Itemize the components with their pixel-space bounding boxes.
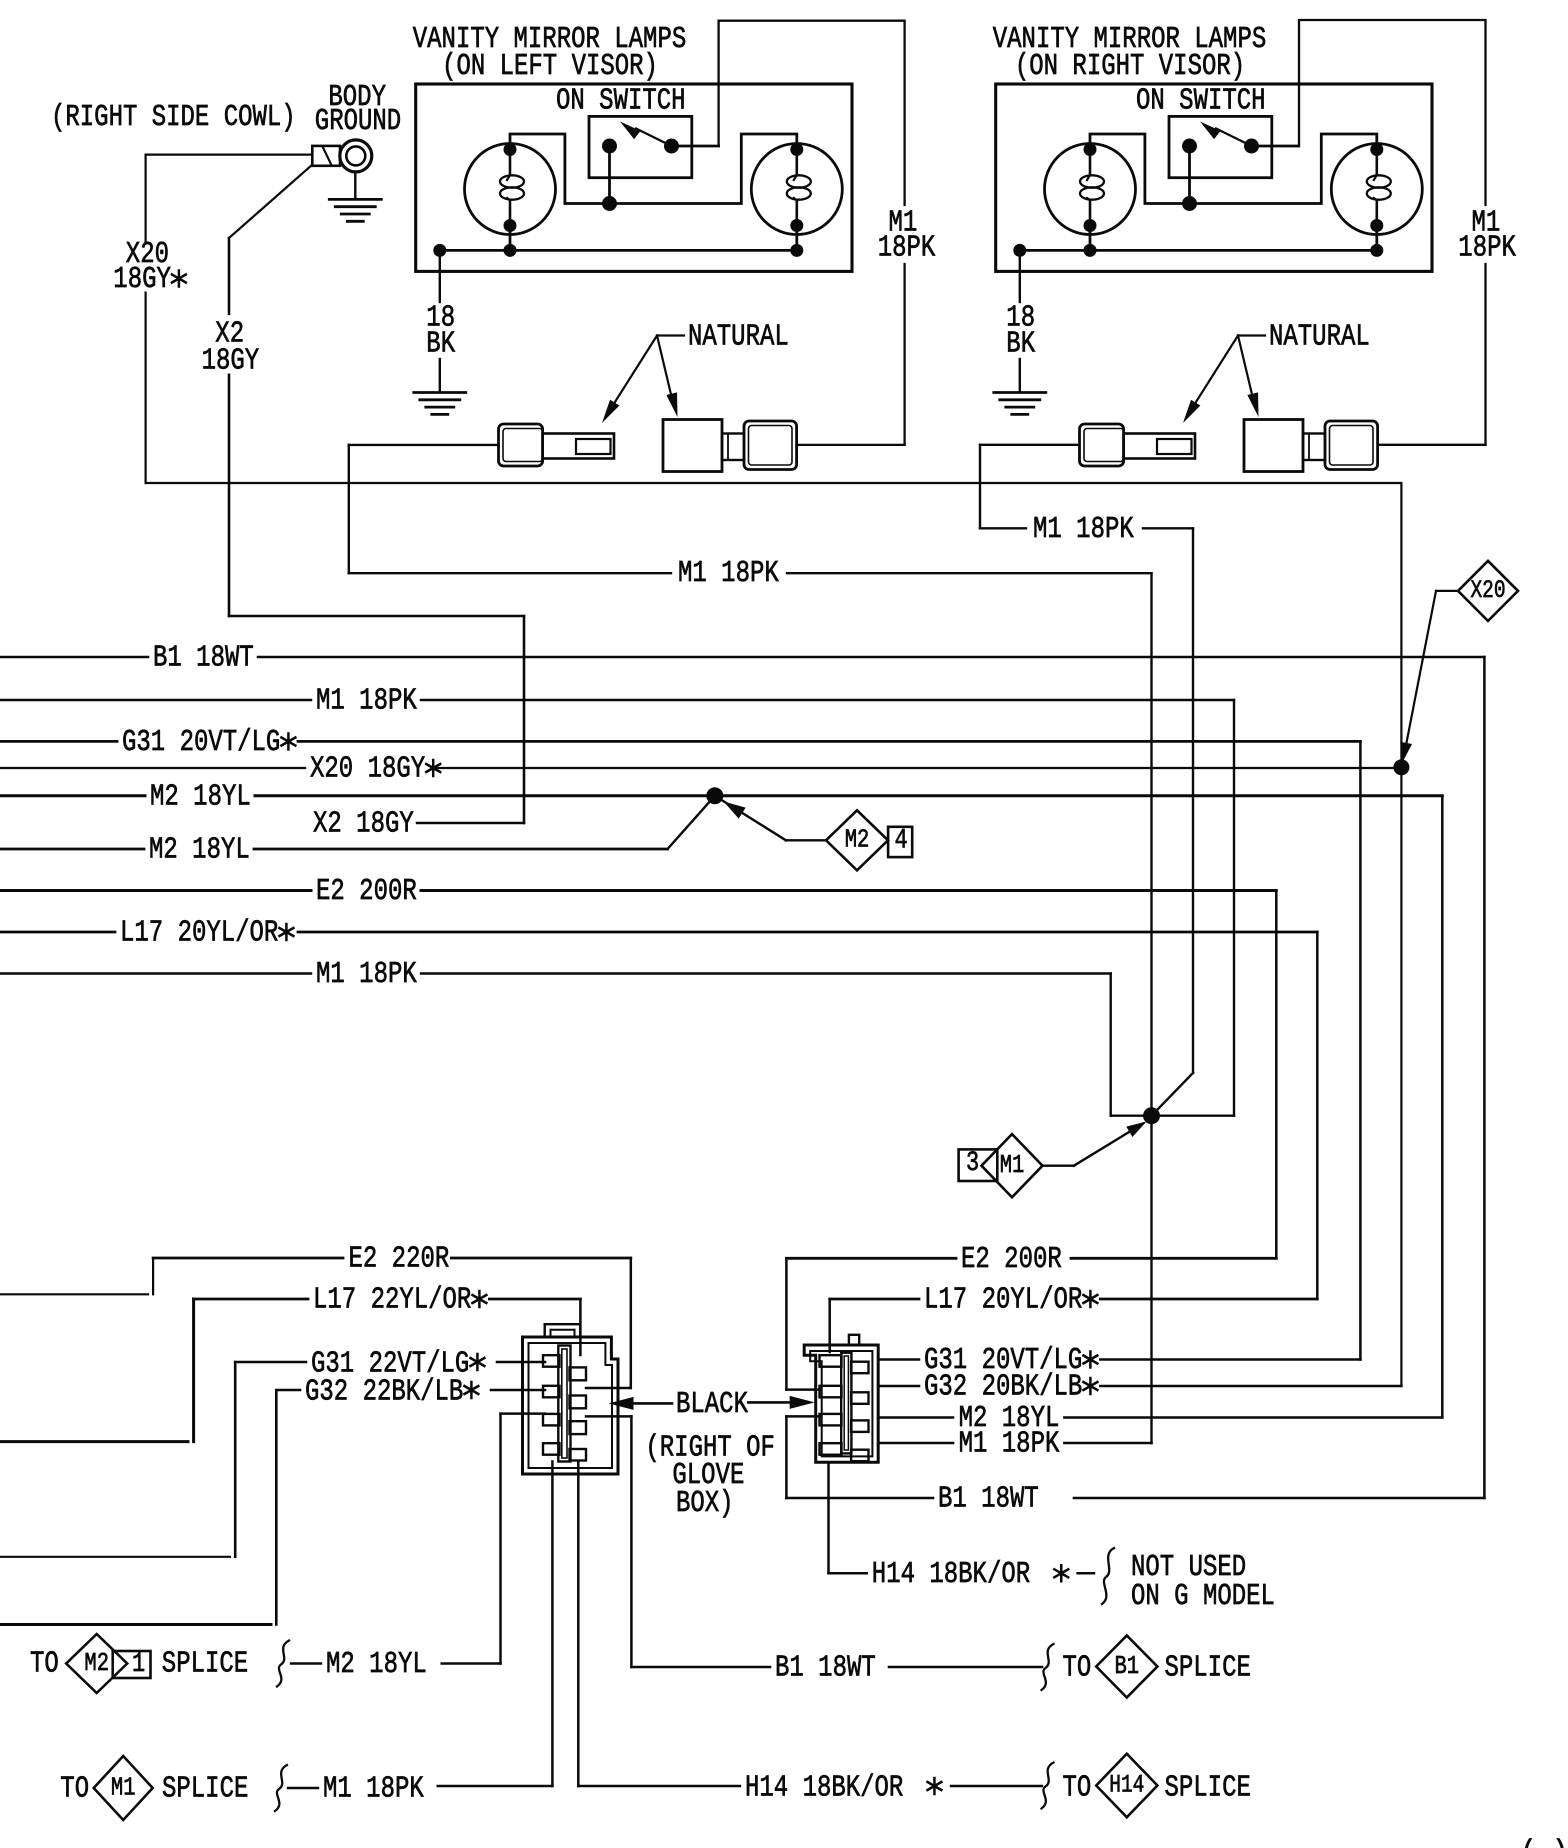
svg-text:M1 18PK: M1 18PK: [1033, 513, 1134, 547]
svg-text:H14 18BK/OR: H14 18BK/OR: [872, 1557, 1030, 1591]
svg-text:M2 18YL: M2 18YL: [326, 1648, 427, 1682]
svg-text:E2 200R: E2 200R: [961, 1242, 1062, 1276]
svg-text:B1 18WT: B1 18WT: [775, 1651, 876, 1685]
svg-text:B1: B1: [1115, 1652, 1140, 1681]
svg-text:M2: M2: [845, 826, 870, 855]
svg-text:NATURAL: NATURAL: [688, 320, 789, 354]
svg-text:M2 18YL: M2 18YL: [149, 833, 250, 867]
svg-text:M2 18YL: M2 18YL: [150, 780, 251, 814]
svg-text:GROUND: GROUND: [315, 104, 401, 138]
svg-text:(ON RIGHT VISOR): (ON RIGHT VISOR): [1015, 50, 1245, 84]
svg-text:TO: TO: [60, 1772, 89, 1806]
svg-text:G32 20BK/LB: G32 20BK/LB: [924, 1370, 1082, 1404]
svg-text:SPLICE: SPLICE: [162, 1647, 248, 1681]
svg-text:B1 18WT: B1 18WT: [938, 1482, 1039, 1516]
svg-text:X20 18GY: X20 18GY: [310, 752, 425, 786]
svg-text:M1 18PK: M1 18PK: [678, 557, 779, 591]
svg-text:TO: TO: [1063, 1771, 1092, 1805]
svg-text:SPLICE: SPLICE: [1165, 1651, 1251, 1685]
svg-text:H14: H14: [1109, 1772, 1144, 1800]
svg-text:L17 20YL/OR: L17 20YL/OR: [120, 916, 278, 950]
svg-text:E2 220R: E2 220R: [349, 1242, 450, 1276]
svg-text:TO: TO: [1063, 1651, 1092, 1685]
svg-text:ON SWITCH: ON SWITCH: [1136, 84, 1266, 118]
svg-text:18PK: 18PK: [878, 231, 936, 265]
svg-text:M1 18PK: M1 18PK: [316, 958, 417, 992]
svg-text:SPLICE: SPLICE: [1165, 1771, 1251, 1805]
svg-text:L17 22YL/OR: L17 22YL/OR: [313, 1283, 471, 1317]
svg-text:X2 18GY: X2 18GY: [313, 807, 414, 841]
svg-text:(RIGHT SIDE COWL): (RIGHT SIDE COWL): [51, 101, 296, 135]
svg-text:(ON LEFT VISOR): (ON LEFT VISOR): [442, 50, 658, 84]
svg-text:G32 22BK/LB: G32 22BK/LB: [305, 1375, 463, 1409]
svg-text:L17 20YL/OR: L17 20YL/OR: [924, 1283, 1082, 1317]
svg-text:( ): ( ): [1520, 1836, 1568, 1848]
svg-text:18PK: 18PK: [1458, 231, 1516, 265]
svg-text:H14 18BK/OR: H14 18BK/OR: [745, 1771, 903, 1805]
svg-text:M1 18PK: M1 18PK: [959, 1427, 1060, 1461]
svg-text:18GY: 18GY: [202, 344, 260, 378]
svg-text:ON G MODEL: ON G MODEL: [1131, 1580, 1275, 1614]
svg-text:M2: M2: [84, 1649, 109, 1678]
svg-text:18GY: 18GY: [113, 262, 171, 296]
svg-text:E2 200R: E2 200R: [316, 875, 417, 909]
svg-text:X20: X20: [1470, 577, 1505, 605]
svg-text:BOX): BOX): [676, 1486, 734, 1520]
svg-text:1: 1: [132, 1648, 145, 1680]
svg-text:4: 4: [895, 824, 908, 856]
svg-text:M1 18PK: M1 18PK: [323, 1772, 424, 1806]
svg-text:BK: BK: [1006, 327, 1035, 361]
svg-text:3: 3: [966, 1147, 979, 1179]
svg-text:BLACK: BLACK: [676, 1387, 749, 1421]
svg-text:NATURAL: NATURAL: [1269, 320, 1370, 354]
svg-text:G31 20VT/LG: G31 20VT/LG: [122, 726, 280, 760]
svg-text:TO: TO: [30, 1647, 59, 1681]
svg-text:M1: M1: [1000, 1151, 1025, 1180]
svg-text:SPLICE: SPLICE: [162, 1772, 248, 1806]
svg-text:BK: BK: [426, 327, 455, 361]
svg-text:ON SWITCH: ON SWITCH: [556, 84, 686, 118]
svg-text:B1 18WT: B1 18WT: [153, 641, 254, 675]
svg-text:M1: M1: [111, 1773, 136, 1802]
svg-text:M1 18PK: M1 18PK: [316, 684, 417, 718]
